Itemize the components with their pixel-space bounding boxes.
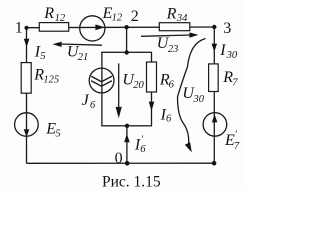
svg-text:5: 5 bbox=[40, 51, 45, 62]
svg-text:7: 7 bbox=[232, 77, 238, 88]
svg-text:12: 12 bbox=[55, 13, 66, 24]
svg-text:5: 5 bbox=[55, 129, 60, 140]
svg-text:34: 34 bbox=[176, 13, 188, 24]
svg-text:I: I bbox=[219, 42, 226, 59]
svg-text:6: 6 bbox=[90, 100, 96, 111]
svg-text:6: 6 bbox=[166, 114, 172, 125]
svg-text:23: 23 bbox=[168, 44, 179, 55]
svg-text:2: 2 bbox=[131, 8, 139, 25]
svg-text:6: 6 bbox=[169, 79, 175, 90]
svg-text:′: ′ bbox=[235, 130, 238, 141]
svg-text:J: J bbox=[82, 92, 90, 109]
svg-text:6: 6 bbox=[140, 144, 146, 155]
svg-text:21: 21 bbox=[78, 52, 89, 63]
svg-text:3: 3 bbox=[223, 20, 231, 37]
svg-text:Рис. 1.15: Рис. 1.15 bbox=[102, 173, 161, 190]
svg-text:30: 30 bbox=[193, 94, 205, 105]
svg-text:20: 20 bbox=[133, 80, 144, 91]
svg-text:12: 12 bbox=[112, 13, 123, 24]
svg-text:1: 1 bbox=[15, 20, 23, 37]
svg-text:R: R bbox=[43, 5, 54, 22]
svg-text:0: 0 bbox=[115, 150, 123, 167]
svg-text:125: 125 bbox=[43, 75, 59, 86]
svg-text:R: R bbox=[166, 5, 177, 22]
svg-text:30: 30 bbox=[226, 50, 238, 61]
svg-text:7: 7 bbox=[234, 141, 240, 152]
